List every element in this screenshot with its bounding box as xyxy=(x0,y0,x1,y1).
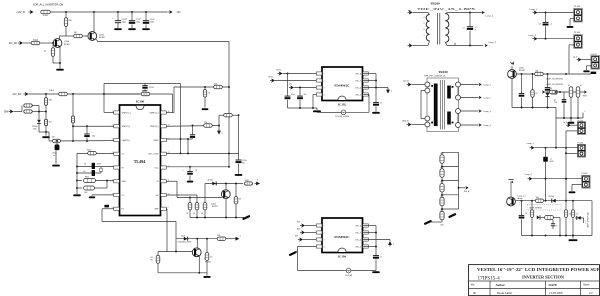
Q701 base line y200.7 rail xyxy=(515,200,592,202)
svg-text:Baruh Akbiri: Baruh Akbiri xyxy=(497,291,512,295)
svg-text:Lamp_2: Lamp_2 xyxy=(529,35,537,37)
Q103 bottom rail xyxy=(158,272,207,274)
transistor Q100 BC817 xyxy=(53,39,62,48)
svg-text:TR100: TR100 xyxy=(438,70,448,74)
rail right stub with label xyxy=(582,113,584,118)
resistor R117 vertical xyxy=(195,203,199,210)
junction C113 bottom xyxy=(545,38,547,40)
IC100 left pin 2 xyxy=(114,125,120,128)
IC100 right pin 14 xyxy=(161,138,167,141)
TR100 secondary winding bar upper xyxy=(447,86,451,99)
Q103 base line y251.5 xyxy=(158,251,193,253)
resistor R103 xyxy=(52,43,54,48)
wire node to CT corner xyxy=(48,132,50,141)
wire +12V rail xyxy=(50,11,167,13)
wire pin11 C2 to x177 down xyxy=(166,180,177,182)
IC100 right pin 12 xyxy=(161,166,167,169)
resistor R116 on pin15 wire xyxy=(204,124,213,127)
svg-text:2: 2 xyxy=(393,244,394,246)
junction y92 xyxy=(555,91,557,93)
svg-text:DRL_8: DRL_8 xyxy=(355,73,361,75)
Q103 emitter to bottom rail xyxy=(198,256,200,273)
transistor Q701 PNP xyxy=(508,180,513,183)
vertical supply bus x229 xyxy=(228,42,230,167)
svg-text:12V: 12V xyxy=(177,11,182,14)
junction R114 top xyxy=(204,86,206,88)
junction base line xyxy=(189,197,191,199)
svg-text:DRL_7: DRL_7 xyxy=(355,80,361,82)
junction on +12V rail at R101 xyxy=(65,11,67,13)
lamp error lower rail y118 xyxy=(556,117,583,119)
capacitor C114 between 1INPUT- and CT wires xyxy=(86,125,88,127)
svg-text:R105: R105 xyxy=(49,90,55,92)
opto component body xyxy=(541,217,545,219)
resistor R118 vertical xyxy=(203,203,207,210)
IC104 pin 1 left box xyxy=(316,224,322,227)
TR100 secondary polarity dot upper xyxy=(452,86,454,88)
svg-text:IN3: IN3 xyxy=(295,236,298,238)
svg-text:2: 2 xyxy=(222,133,223,135)
port arrow 12V right xyxy=(167,11,170,13)
rail corner down x556 xyxy=(555,108,557,148)
junction pin13 wire/x238 xyxy=(187,152,189,154)
stray chassis mark xyxy=(450,214,456,217)
svg-text:1: 1 xyxy=(585,223,586,225)
svg-text:VCC: VCC xyxy=(155,167,160,169)
resistor R104 vertical xyxy=(45,94,47,98)
IC100 left pin 5 xyxy=(114,166,120,169)
svg-text:4148: 4148 xyxy=(97,163,101,165)
svg-text:DIM: DIM xyxy=(4,112,8,114)
IC102 pin 4 left box xyxy=(316,93,322,96)
svg-text:Lamp_4: Lamp_4 xyxy=(484,125,492,127)
capacitor C113 between lamp wires xyxy=(545,13,547,23)
svg-text:300R: 300R xyxy=(245,180,250,182)
IC102 pin6 wire xyxy=(363,80,376,82)
svg-text:12V_INV: 12V_INV xyxy=(12,94,22,96)
junction x566 crossings xyxy=(565,147,567,149)
svg-text:10K: 10K xyxy=(69,20,73,22)
capacitor C108 below IC102 xyxy=(287,74,289,96)
wire pin10 E2 to R117 xyxy=(166,194,197,196)
divider resistor RD3 xyxy=(440,184,444,193)
svg-text:Q102: Q102 xyxy=(211,203,217,205)
svg-text:Ver.: Ver. xyxy=(471,283,476,287)
svg-text:OUT_CONT: OUT_CONT xyxy=(148,154,159,156)
resistor R119 vertical xyxy=(189,198,191,203)
svg-text:R110: R110 xyxy=(87,149,91,151)
IC100 left pin 4 xyxy=(114,152,120,155)
wire feedback top y83.5 xyxy=(104,83,181,85)
svg-text:+1: +1 xyxy=(550,23,553,25)
svg-text:D2: D2 xyxy=(83,171,85,173)
wire pin6 GND xyxy=(92,194,114,196)
capacitor C103 dark below CT wire xyxy=(56,140,58,142)
TR100 left pin circles bottom pair xyxy=(425,116,430,121)
svg-text:12.09.2008: 12.09.2008 xyxy=(549,291,563,295)
stub x188 to pin13 wire xyxy=(187,139,189,153)
IC100 left pin 8 xyxy=(114,207,120,210)
svg-text:1K: 1K xyxy=(44,51,47,53)
svg-text:Lamp_2: Lamp_2 xyxy=(489,42,497,44)
svg-text:C3: C3 xyxy=(539,23,541,25)
fuse F100 xyxy=(41,10,51,14)
svg-text:Lp_4: Lp_4 xyxy=(563,122,567,124)
junction C111 bottom xyxy=(469,45,471,47)
svg-text:TRF_INV_15_1.8P5: TRF_INV_15_1.8P5 xyxy=(417,7,476,11)
TR100 left pin circles top pair xyxy=(425,82,430,87)
svg-text:Lp_3: Lp_3 xyxy=(573,56,577,58)
TR100 frame xyxy=(427,78,459,132)
svg-text:TL494: TL494 xyxy=(134,159,146,164)
net arrow A down-stub xyxy=(217,129,221,135)
IC102 bottom loop with coil xyxy=(317,111,341,113)
resistor R700 on base line xyxy=(535,72,544,75)
resistor R115 on pin16 feed xyxy=(104,93,140,95)
svg-text:1n: 1n xyxy=(556,225,558,227)
wire zener to ground node xyxy=(38,124,40,132)
svg-text:Q700: Q700 xyxy=(519,67,525,69)
IC100 right pin 15 xyxy=(161,125,167,128)
svg-text:Author: Author xyxy=(496,283,506,287)
junction pin12/cap stub xyxy=(189,166,191,168)
wire R101 to Q102 base node xyxy=(59,35,74,37)
wire 12V_INV node rail xyxy=(29,93,105,95)
svg-text:10K: 10K xyxy=(549,88,553,90)
branch y166.5 diode D100 xyxy=(76,166,78,168)
svg-text:GND_A: GND_A xyxy=(402,120,409,123)
svg-text:+: + xyxy=(183,170,185,172)
detector bottom rail y235.5 xyxy=(522,235,593,237)
svg-text:C1: C1 xyxy=(122,195,124,197)
svg-text:10u: 10u xyxy=(242,162,245,164)
IC104 bottom loop xyxy=(298,270,347,272)
vertical x73 divider xyxy=(72,94,74,116)
svg-text:FOR_ALL_INVERTER_ON: FOR_ALL_INVERTER_ON xyxy=(33,4,63,7)
opto diode glyph xyxy=(537,215,540,219)
TR100 output Lamp wires xyxy=(461,84,479,86)
wire Q101 emitter to 12V_INV rail xyxy=(97,39,98,41)
junction cap stub on pin15 wire xyxy=(192,125,194,127)
junction x73 top xyxy=(72,93,74,95)
Q700 base line y74 xyxy=(516,73,566,75)
IC102 pin 7 right box xyxy=(363,79,369,82)
cap C701 small stub xyxy=(563,92,565,99)
svg-text:VESTEL 16''-19''-22'' LCD INTE: VESTEL 16''-19''-22'' LCD INTEGRETED POW… xyxy=(477,267,600,272)
resistor R102 xyxy=(74,34,83,37)
junction ground node x46 xyxy=(45,131,47,133)
Q102 emitter xyxy=(225,199,227,218)
zener ZD700 on base rail xyxy=(552,199,556,203)
wire pin8 C1 loop under IC xyxy=(102,208,114,210)
svg-text:+: + xyxy=(370,102,372,104)
IC104 pin 5 right box xyxy=(363,245,369,248)
IC102 pin 5 right box xyxy=(363,93,369,96)
svg-text:1K: 1K xyxy=(580,85,583,87)
TR100 right pin circles xyxy=(456,82,461,87)
svg-text:IC100: IC100 xyxy=(136,100,145,104)
junction C111 top xyxy=(469,12,471,14)
svg-text:BC817: BC817 xyxy=(64,44,71,46)
coil L101 on IC104 loop xyxy=(346,268,351,273)
capacitor C111 across output xyxy=(469,13,471,27)
svg-text:Lamp_3: Lamp_3 xyxy=(527,143,535,145)
wire pin14 VREF xyxy=(166,138,192,140)
svg-text:FDS8962C: FDS8962C xyxy=(334,83,350,87)
title block frame xyxy=(469,265,600,296)
svg-text:1n: 1n xyxy=(53,155,55,157)
zener line y183.5 xyxy=(205,183,243,185)
resistor R113 on y87 wire xyxy=(214,85,223,88)
transistor Q700 PNP xyxy=(511,62,515,65)
IC100 left pin 7 xyxy=(114,193,120,196)
TR200 core xyxy=(436,13,438,45)
svg-text:+: + xyxy=(140,18,142,20)
divider bypass right link xyxy=(458,152,460,209)
svg-text:DATE: DATE xyxy=(549,283,558,287)
junction x180.5 crossings xyxy=(180,138,182,140)
HV divider resistor chain xyxy=(441,152,443,155)
svg-text:Lamp_1: Lamp_1 xyxy=(484,84,492,86)
svg-text:detect: detect xyxy=(518,197,524,200)
diode D702 on branch xyxy=(575,217,584,219)
resistor R110 on RT wire xyxy=(88,152,97,155)
svg-text:1K: 1K xyxy=(535,93,538,95)
resistor R106 upper parallel xyxy=(21,106,23,112)
IC100 right pin 11 xyxy=(161,180,167,183)
svg-text:1K: 1K xyxy=(576,214,579,216)
svg-text:DRL_6: DRL_6 xyxy=(355,239,361,241)
junction DIM divider xyxy=(38,111,40,113)
svg-text:PL100: PL100 xyxy=(574,6,581,8)
svg-text:4: 4 xyxy=(424,17,425,19)
resistor R701 column xyxy=(532,74,534,90)
corner x205 down to R118 xyxy=(204,184,206,203)
wire pin15 2INPUT(-) xyxy=(166,125,219,128)
svg-text:10K: 10K xyxy=(49,100,53,102)
svg-text:2: 2 xyxy=(391,91,392,93)
TR100 secondary polarity dot lower xyxy=(452,122,454,124)
TR200 secondary top wire xyxy=(447,12,480,14)
svg-text:1: 1 xyxy=(324,73,325,75)
diode D102 line y238.7 xyxy=(176,238,217,240)
junction y147.7 xyxy=(545,147,547,149)
capacitor C107 stub xyxy=(189,167,191,172)
IC104 pin8 wire xyxy=(363,246,376,248)
resistor R120 vertical right xyxy=(235,184,237,197)
divider tap net arrow xyxy=(459,187,466,189)
svg-text:Lamp_1: Lamp_1 xyxy=(486,16,494,18)
svg-text:VREF: VREF xyxy=(153,140,159,142)
Q700 cluster bottom rail xyxy=(512,107,556,109)
PL101 pin2 wire down bus xyxy=(569,44,575,46)
link D101 up to pin5 wire xyxy=(100,167,102,174)
wire Q100 emitter to ground xyxy=(59,47,61,69)
left feedback bus x77 xyxy=(76,154,78,195)
wire R102 to Q101 base xyxy=(82,35,88,37)
svg-text:5: 5 xyxy=(424,23,425,25)
svg-text:4148: 4148 xyxy=(550,161,554,163)
IC102 pin 8 right box xyxy=(363,72,369,75)
diode D701 dark on x545 bus xyxy=(545,148,547,157)
zener ZD101 on line xyxy=(212,182,216,186)
capacitor C100 xyxy=(117,12,119,21)
junction x376 pins xyxy=(375,80,377,82)
Q700 collector down xyxy=(511,78,513,107)
ground bar on IC102 rail xyxy=(313,107,317,109)
svg-text:OUT2: OUT2 xyxy=(268,77,273,79)
PL104 pin2 wire to bus xyxy=(566,152,578,154)
ground on bottom rail xyxy=(572,236,574,239)
svg-text:3: 3 xyxy=(324,239,325,241)
IC100 right pin 16 xyxy=(161,111,167,114)
resistor R703 vertical on y92 xyxy=(569,87,573,97)
svg-text:12V: 12V xyxy=(289,84,293,86)
svg-text:4: 4 xyxy=(324,246,325,248)
TR200 secondary winding xyxy=(445,14,449,43)
output port Lamp_2 arrow xyxy=(485,44,488,48)
transistor Q102 BC817 xyxy=(221,190,230,199)
wire pin16 to x174 up xyxy=(166,112,174,114)
svg-text:C1: C1 xyxy=(195,170,197,172)
svg-text:+: + xyxy=(281,94,283,96)
ground at bus x77 xyxy=(73,194,81,196)
svg-text:1K: 1K xyxy=(525,213,528,215)
vertical bus x238.5 with cap C106 xyxy=(238,115,240,160)
IC102 pin 6 right box xyxy=(363,86,369,89)
svg-text:1K: 1K xyxy=(186,213,189,215)
IC104 pin 8 right box xyxy=(363,224,369,227)
svg-text:2: 2 xyxy=(324,232,325,234)
vertical x180.5 from y83.5 xyxy=(180,84,182,154)
svg-text:+: + xyxy=(126,18,128,20)
junction pin2/x73 xyxy=(72,125,74,127)
wire pin9 E1 down to Q103 base line xyxy=(165,208,168,210)
IC100 left pin 3 xyxy=(114,138,120,141)
Q102 collector to zener line xyxy=(225,184,227,190)
ground for ZD100/R108 xyxy=(45,132,47,136)
divider resistor RD2 xyxy=(440,169,444,178)
resistor R707 column xyxy=(565,201,567,210)
svg-text:BC817: BC817 xyxy=(205,261,212,263)
IC104 pin 3 left box xyxy=(316,238,322,241)
TR100 primary polarity dot bottom xyxy=(431,122,433,124)
diode D700 column xyxy=(547,74,549,87)
junction x73 bottom CT wire xyxy=(72,140,74,142)
TR100 primary winding bar xyxy=(434,84,438,127)
svg-text:PL101: PL101 xyxy=(574,32,581,34)
svg-text:DRL_7: DRL_7 xyxy=(355,232,361,234)
capacitor C702 column xyxy=(521,201,523,216)
ground below C110 xyxy=(372,112,380,114)
capacitor C112 right of IC104 xyxy=(373,255,379,257)
svg-text:IC104: IC104 xyxy=(338,254,347,258)
svg-text:10K: 10K xyxy=(554,102,558,104)
svg-text:Lamp_2: Lamp_2 xyxy=(484,97,492,99)
svg-text:1n: 1n xyxy=(380,103,382,105)
power MOSFET IC104 FDS8962C body xyxy=(322,218,363,253)
wire pin3 CT network xyxy=(49,140,114,142)
junction +12V rail at Q101 collector xyxy=(93,11,95,13)
svg-text:2INPUT(+): 2INPUT(+) xyxy=(149,112,158,114)
TR200 secondary bottom wire xyxy=(447,45,483,47)
svg-text:Lamp_4: Lamp_4 xyxy=(525,174,533,176)
ground for Q103 cluster xyxy=(206,273,208,276)
svg-text:4M7: 4M7 xyxy=(440,182,443,184)
IC100 right pin 9 xyxy=(161,207,167,210)
rail corner down x592 xyxy=(591,201,593,236)
svg-text:OUT1: OUT1 xyxy=(276,70,281,72)
svg-text:IC102: IC102 xyxy=(338,102,347,106)
svg-text:17IPS15-4: 17IPS15-4 xyxy=(478,276,501,282)
TR200 primary winding xyxy=(426,15,429,41)
resistor R702 on y92 xyxy=(549,90,557,93)
ground on y118 rail xyxy=(570,118,572,121)
svg-text:R111: R111 xyxy=(85,177,89,179)
junction C113 top xyxy=(545,12,547,14)
ground below C103 xyxy=(55,150,57,164)
IC104 pin 4 left box xyxy=(316,245,322,248)
capacitor C700 column xyxy=(521,74,523,93)
TR100 right vertical links xyxy=(457,87,459,95)
capacitor C101 electrolytic xyxy=(131,12,133,21)
IC100 left pin 6 xyxy=(114,180,120,183)
PL100 pin2 wire to ground xyxy=(570,18,575,20)
junction Q100 base / R103 xyxy=(52,42,54,44)
small cap C703 stub xyxy=(552,220,554,224)
svg-text:IN1: IN1 xyxy=(297,222,300,224)
vertical wire x104 xyxy=(103,84,105,113)
svg-text:3: 3 xyxy=(324,87,325,89)
junction IC102 pin1 wire xyxy=(287,73,289,75)
svg-text:FDS8962C: FDS8962C xyxy=(334,235,350,239)
wire 12V_INV rail to vertical bus x229 xyxy=(130,41,229,43)
svg-text:DRL_5: DRL_5 xyxy=(355,246,361,248)
svg-text:2INPUT(-): 2INPUT(-) xyxy=(150,126,159,128)
net arrow on zener line xyxy=(255,182,261,186)
svg-text:4: 4 xyxy=(324,94,325,96)
wire y115 to bus x238 xyxy=(224,114,233,117)
svg-text:INVERTER SECTION: INVERTER SECTION xyxy=(522,274,564,279)
power MOSFET IC102 FDS8962C body xyxy=(322,67,363,101)
svg-text:6: 6 xyxy=(424,29,425,31)
svg-text:+: + xyxy=(294,94,296,96)
base line tail to dark terminal xyxy=(566,73,591,75)
resistor R705 on base rail xyxy=(535,199,543,202)
svg-text:7: 7 xyxy=(424,35,425,37)
svg-text:1n: 1n xyxy=(380,257,382,259)
svg-text:4K7: 4K7 xyxy=(52,137,55,139)
divider resistor RD1 xyxy=(440,155,444,164)
IC100 left pin 1 xyxy=(114,111,120,114)
net arrow right on y238.7 xyxy=(234,237,240,241)
wire pin4 RT network xyxy=(77,153,114,155)
junction emitter/R103 xyxy=(59,62,61,64)
svg-text:Lamp_1: Lamp_1 xyxy=(530,9,538,11)
svg-text:1K: 1K xyxy=(208,92,211,94)
svg-text:1K: 1K xyxy=(239,198,242,200)
svg-text:DRL_5: DRL_5 xyxy=(355,94,361,96)
capacitor C109 below IC102 xyxy=(299,88,301,96)
junction y178.7 xyxy=(545,178,547,180)
svg-text:10K: 10K xyxy=(84,192,88,194)
resistor R109 on CT wire xyxy=(53,139,61,142)
TR100 left link wire xyxy=(421,90,425,92)
svg-text:ZD700: ZD700 xyxy=(549,196,554,198)
wire x176 from DTC loop down xyxy=(175,222,177,239)
transistor Q101 BC807 xyxy=(93,12,95,32)
svg-text:PL103: PL103 xyxy=(578,120,585,122)
